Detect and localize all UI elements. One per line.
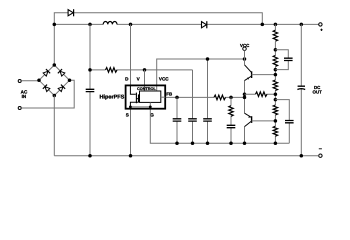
- resistor R2 sense: [106, 68, 118, 73]
- node dots divider chain: [274, 48, 278, 145]
- wire comp branch x231: [230, 97, 232, 143]
- svg-text:VCC: VCC: [159, 77, 169, 82]
- svg-text:D: D: [125, 77, 129, 82]
- node dot VCC end: [243, 57, 247, 61]
- wire top bypass rail: [54, 13, 262, 65]
- capacitor C4 VCC: [203, 119, 212, 121]
- bridge diode bottom-left: [43, 85, 51, 93]
- IC inner control box: [140, 91, 161, 102]
- wire divider chain x275.4: [274, 24, 276, 143]
- wire AC lower to bridge right: [21, 80, 74, 108]
- terminal + output: [319, 23, 322, 26]
- wire cap B branch: [275, 100, 289, 121]
- wire G pin to signal rail: [150, 109, 289, 144]
- IC internal source wire: [130, 102, 150, 107]
- wire bridge bottom to ground rail: [53, 96, 55, 156]
- terminal AC lower: [18, 107, 21, 110]
- node dot V pin junction: [143, 68, 147, 72]
- node dot comp branch: [229, 96, 233, 100]
- bridge diode top-left: [43, 69, 51, 77]
- resistor R6 chain1: [273, 30, 277, 41]
- terminal - output: [319, 154, 322, 157]
- IC internal mosfet: [130, 85, 139, 107]
- terminal AC upper: [18, 80, 21, 83]
- svg-text:IN: IN: [22, 94, 27, 99]
- capacitor C8 output electrolytic: [297, 86, 305, 89]
- bridge vertex dots: [37, 63, 71, 97]
- svg-text:G: G: [150, 112, 154, 117]
- node dot VCC cap: [206, 57, 210, 61]
- transistor Q1 npn: [245, 65, 252, 81]
- wire cap A loop: [275, 50, 288, 58]
- wire output cap column x301.3: [300, 24, 302, 155]
- node junction dots on boost rail: [53, 23, 303, 27]
- wire Q2 base: [252, 120, 276, 122]
- diode D2 boost: [202, 21, 207, 28]
- resistor R9 chain4: [273, 105, 277, 115]
- wire D pin: [130, 24, 132, 85]
- resistor R5 fb upper: [256, 92, 267, 97]
- capacitor C1 input: [86, 89, 95, 91]
- svg-text:HiperPFS: HiperPFS: [100, 95, 125, 101]
- wire main boost rail: [54, 23, 319, 25]
- svg-text:VCC: VCC: [240, 43, 250, 48]
- node dot input cap bottom: [88, 154, 92, 158]
- capacitor C6 chain: [284, 58, 293, 60]
- resistor R10 chain5: [273, 126, 277, 136]
- wire S pin to bottom rail: [130, 109, 132, 156]
- wire VCC pin up and across: [157, 59, 245, 91]
- inductor L1: [103, 22, 117, 25]
- node dots fb junction: [243, 92, 247, 96]
- resistor R4 comp: [229, 106, 233, 117]
- capacitor C7 lower: [285, 121, 294, 123]
- node dot output bottom: [300, 154, 304, 158]
- diode D1 bypass: [68, 9, 74, 16]
- wire FB net: [165, 96, 244, 98]
- resistor R7 chain2: [273, 55, 277, 66]
- svg-text:V: V: [137, 77, 141, 82]
- transistor Q2 pnp: [245, 113, 252, 126]
- capacitor C3 V pin: [188, 119, 197, 121]
- svg-text:FB: FB: [166, 92, 172, 97]
- wire fb right segment: [245, 93, 276, 95]
- svg-text:OUT: OUT: [313, 89, 323, 94]
- wire VCC cap column x207.5: [207, 59, 209, 143]
- bridge diode top-right: [58, 69, 66, 77]
- terminal VCC supply: [243, 47, 247, 51]
- node dots signal ground rail: [175, 141, 246, 145]
- capacitor C2 fb: [173, 119, 182, 121]
- bridge diode bottom-right: [58, 85, 66, 93]
- wire V pin: [144, 70, 146, 91]
- wire V sense y70: [90, 70, 193, 143]
- capacitor C5 comp: [227, 125, 236, 127]
- wire AC upper to bridge: [21, 80, 39, 82]
- resistor R8 chain3: [273, 80, 277, 90]
- IC internal fb stub: [161, 96, 166, 98]
- wire bottom rail: [54, 155, 318, 157]
- svg-text:S: S: [126, 112, 129, 117]
- node dot sense junction x90: [88, 68, 92, 72]
- IC U1 HiperPFS outline: [126, 85, 166, 108]
- svg-text:CONTROL: CONTROL: [137, 87, 156, 91]
- wire input cap column x90: [89, 24, 91, 155]
- wire fb cap column x177: [176, 97, 178, 143]
- wire Q1 base: [252, 74, 276, 76]
- resistor R3 fb series: [214, 95, 226, 100]
- node dot fb cap: [175, 96, 179, 100]
- bridge rectifier BR1 frame: [39, 65, 70, 96]
- wire transistor column x244.5: [244, 59, 246, 143]
